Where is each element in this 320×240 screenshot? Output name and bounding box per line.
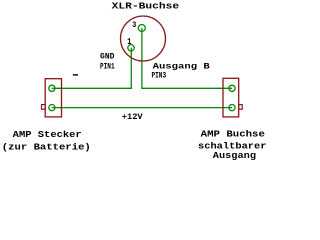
- wire from XLR pin3 to right connector upper pin (Ausgang B): [142, 28, 232, 88]
- svg-text:1: 1: [127, 36, 131, 47]
- XLR pin 1 contact: [128, 45, 134, 51]
- svg-text:+12V: +12V: [122, 112, 144, 122]
- left connector latch tab: [42, 105, 46, 110]
- minus polarity mark: [73, 74, 78, 75]
- svg-text:schaltbarer: schaltbarer: [198, 142, 267, 152]
- right connector lower pin: [229, 105, 235, 111]
- left connector lower pin: [49, 105, 55, 111]
- svg-text:AMP Stecker: AMP Stecker: [13, 130, 82, 140]
- svg-text:GND: GND: [100, 52, 115, 62]
- svg-text:PIN3: PIN3: [152, 71, 167, 81]
- right connector upper pin: [229, 85, 235, 91]
- XLR connector body circle: [121, 16, 166, 61]
- AMP plug body (left connector): [45, 79, 61, 117]
- left connector upper pin: [49, 85, 55, 91]
- wire from XLR pin1 to left connector upper pin (GND): [52, 48, 131, 89]
- wire +12V between lower pins: [52, 107, 232, 109]
- XLR pin 3 contact: [138, 25, 145, 32]
- svg-text:AMP Buchse: AMP Buchse: [201, 129, 265, 139]
- svg-text:PIN1: PIN1: [100, 61, 115, 71]
- right connector latch tab: [239, 105, 243, 110]
- svg-text:Ausgang: Ausgang: [213, 151, 256, 161]
- svg-text:XLR-Buchse: XLR-Buchse: [112, 2, 180, 12]
- svg-text:(zur Batterie): (zur Batterie): [2, 142, 91, 152]
- AMP socket body (right connector): [223, 78, 239, 117]
- svg-text:3: 3: [132, 20, 136, 30]
